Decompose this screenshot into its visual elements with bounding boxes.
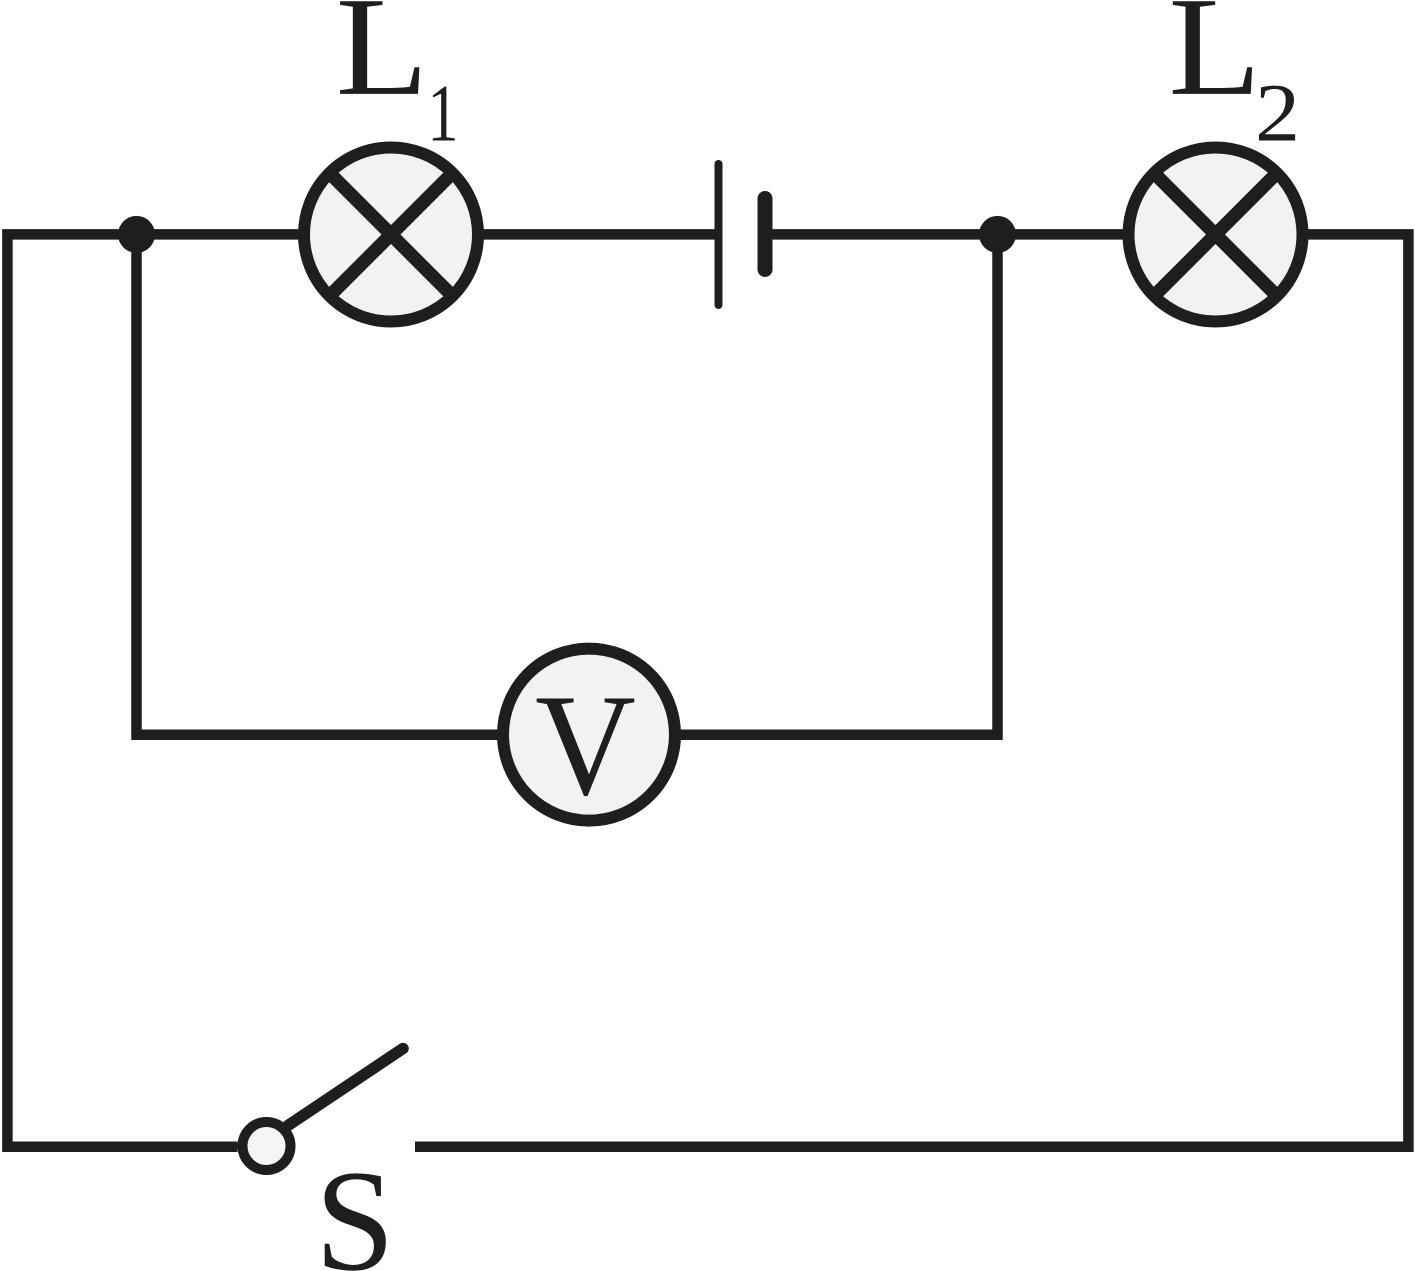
svg-text:S: S: [315, 1142, 395, 1271]
svg-text:L: L: [336, 0, 429, 125]
svg-text:L: L: [1168, 0, 1261, 125]
svg-text:1: 1: [427, 67, 458, 158]
svg-text:V: V: [535, 664, 636, 825]
svg-text:2: 2: [1255, 67, 1300, 159]
